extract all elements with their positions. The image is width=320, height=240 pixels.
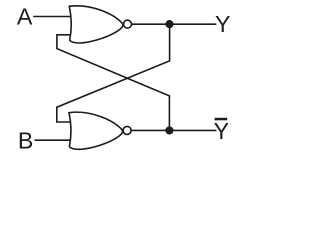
svg-text:Y: Y — [214, 118, 229, 144]
svg-text:A: A — [17, 4, 33, 30]
svg-text:B: B — [18, 128, 33, 154]
svg-text:Y: Y — [215, 11, 230, 37]
